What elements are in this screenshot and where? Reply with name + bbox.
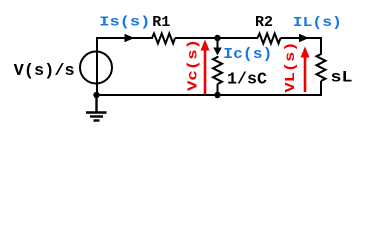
wire bottom (96, 94, 322, 96)
node B junction dot bottom of source (93, 92, 99, 98)
svg-text:V(s)/s: V(s)/s (14, 61, 75, 80)
svg-text:IL(s): IL(s) (293, 15, 342, 31)
wire top middle segment (175, 37, 258, 39)
current arrow IL(s) (299, 34, 309, 42)
svg-text:R1: R1 (152, 14, 170, 31)
inductor impedance sL (317, 53, 326, 81)
voltage source V(s)/s (80, 52, 112, 84)
capacitor impedance 1/sC (213, 56, 222, 84)
wire right vertical lower stub (320, 81, 322, 96)
svg-text:1/sC: 1/sC (227, 71, 267, 90)
svg-text:VL(s): VL(s) (284, 42, 299, 93)
resistor R1 (152, 34, 175, 44)
voltage arrow VL(s) (304, 55, 307, 92)
svg-text:Vc(s): Vc(s) (187, 39, 202, 91)
wire capacitor branch lower stub (217, 84, 219, 95)
svg-text:sL: sL (331, 69, 353, 87)
wire capacitor branch upper stub (217, 38, 219, 50)
resistor R2 (258, 34, 281, 44)
current arrow Is(s) (125, 34, 135, 42)
wire right vertical upper stub (320, 37, 322, 53)
node C junction dot bottom of capacitor branch (214, 92, 220, 98)
svg-text:R2: R2 (255, 14, 273, 31)
svg-text:Is(s): Is(s) (99, 15, 150, 31)
wire top left segment (96, 37, 153, 39)
wire top right segment (281, 37, 322, 39)
wire left vertical through source (96, 38, 98, 95)
voltage arrow Vc(s) (204, 48, 207, 94)
node A junction dot top of capacitor branch (214, 35, 220, 41)
ground (86, 95, 107, 121)
current arrow Ic(s) (213, 48, 221, 56)
svg-text:Ic(s): Ic(s) (223, 46, 272, 63)
